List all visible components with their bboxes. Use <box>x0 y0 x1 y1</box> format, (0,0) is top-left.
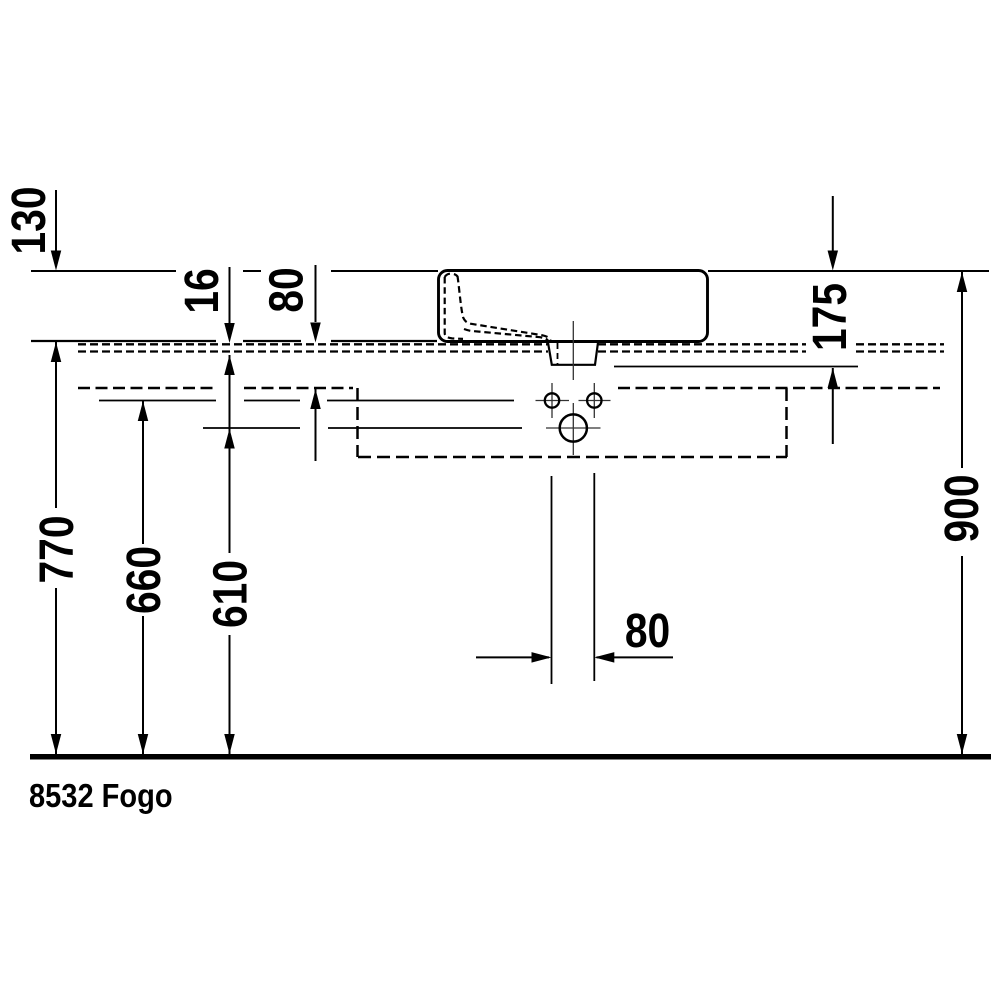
drain centerline <box>572 321 574 455</box>
basin interior hidden profile <box>445 274 551 341</box>
floor line <box>30 754 991 760</box>
apron bottom dashed line y=388 <box>78 387 940 390</box>
faucet extension lines down <box>552 473 595 684</box>
drain hidden dashed edge <box>557 343 559 364</box>
svg-text:80: 80 <box>625 605 670 658</box>
faucet hole centers reference line y=400.5 <box>99 400 514 402</box>
console top surface line y=341 <box>31 340 437 342</box>
faucet hole right circle <box>587 393 601 407</box>
svg-text:175: 175 <box>804 283 857 351</box>
dimension 80 bottom arrows <box>476 656 549 658</box>
svg-text:770: 770 <box>31 515 84 583</box>
top rim level line y=271 <box>31 270 989 272</box>
drain tailpiece <box>548 343 598 365</box>
hidden edge dashed line y=352.5 <box>78 350 944 352</box>
dimension 660 line <box>142 401 144 754</box>
drain bottom reference line y=366.5 <box>614 366 858 368</box>
svg-text:16: 16 <box>176 268 229 313</box>
svg-text:130: 130 <box>3 186 56 254</box>
svg-text:900: 900 <box>936 474 989 542</box>
svg-text:660: 660 <box>118 546 171 614</box>
svg-text:80: 80 <box>260 267 313 312</box>
dimension 130 line <box>55 190 57 252</box>
drain hole large circle <box>560 414 587 441</box>
drain hole reference line y=428 <box>203 427 522 429</box>
console frame dashed rectangle <box>358 388 788 457</box>
small circle centerlines <box>536 383 611 418</box>
faucet hole left circle <box>545 393 559 407</box>
large circle centerline <box>546 427 601 429</box>
svg-text:610: 610 <box>204 560 257 628</box>
svg-text:8532 Fogo: 8532 Fogo <box>29 777 173 814</box>
washbasin outline <box>439 271 708 342</box>
dimension 80 top arrows <box>315 265 317 322</box>
dimension 610 / 16-lower line <box>229 355 231 754</box>
dimension 770 line <box>55 342 57 754</box>
dimension 900 line <box>961 272 963 754</box>
dimension 175 lines <box>832 196 834 252</box>
dimension 16 upper arrow <box>229 267 231 323</box>
hidden edge dashed line y=345.5 <box>78 343 944 345</box>
